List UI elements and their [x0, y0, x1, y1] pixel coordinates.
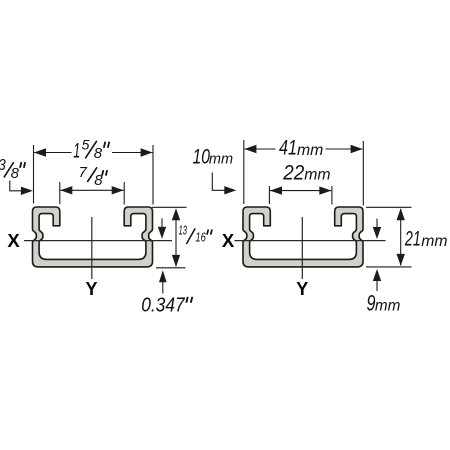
- svg-text:3: 3: [0, 157, 6, 174]
- dimension 1-5/8 inch: extension lines: [33, 145, 35, 204]
- svg-text:7: 7: [79, 164, 88, 181]
- dimension 10mm: text: [193, 146, 234, 169]
- dimension 9mm: up arrow to bottom line: [376, 281, 378, 291]
- dimension 13/16 inch: double arrow: [175, 209, 177, 267]
- svg-text:1: 1: [73, 140, 80, 163]
- dimension 13/16 inch: extension lines: [152, 206, 187, 208]
- svg-text:8: 8: [11, 165, 20, 182]
- Y axis centerline (right): [301, 217, 303, 279]
- svg-text:mm: mm: [304, 166, 330, 183]
- dimension 7/8 inch: text: [79, 164, 108, 189]
- svg-text:mm: mm: [421, 233, 447, 250]
- svg-text:10: 10: [193, 146, 211, 169]
- svg-text:41: 41: [279, 137, 297, 160]
- dimension 41mm: dim lines and arrows: [244, 148, 275, 150]
- svg-text:0.347: 0.347: [141, 293, 186, 316]
- dimension 3/8 inch: text: [0, 157, 25, 182]
- dimension 22mm: dim line and arrows: [270, 190, 331, 192]
- svg-text:22: 22: [282, 161, 304, 184]
- svg-text:16: 16: [195, 230, 206, 244]
- svg-text:mm: mm: [209, 152, 233, 168]
- svg-text:Y: Y: [296, 279, 308, 299]
- svg-text:21: 21: [404, 228, 421, 251]
- svg-text:mm: mm: [297, 142, 323, 159]
- svg-text:8: 8: [94, 145, 103, 162]
- dimension 7/8 inch: dim line and arrows: [60, 189, 123, 191]
- dimension 22mm: text: [282, 161, 330, 184]
- dimension 0.347 inch: up arrow to bottom line: [162, 282, 164, 294]
- dimension 41mm: text: [279, 137, 323, 160]
- dimension 10mm: leader with arrow: [212, 173, 226, 191]
- dimension 0.347 inch: down arrow to X axis: [161, 218, 163, 227]
- left strut channel cross-section (imperial): [33, 207, 153, 267]
- X axis line (right): [235, 240, 386, 242]
- Y axis centerline (left): [91, 217, 93, 279]
- dimension 3/8 inch: leader with arrow: [10, 181, 23, 191]
- dimension 13/16 inch: text: [179, 224, 213, 245]
- svg-text:5: 5: [82, 136, 90, 152]
- right strut channel cross-section (metric): [243, 207, 363, 267]
- svg-text:mm: mm: [375, 297, 401, 314]
- dimension 9mm: text: [367, 291, 401, 316]
- dimension 0.347 inch: text: [141, 293, 192, 316]
- dimension 9mm: down arrow to X axis: [376, 219, 378, 227]
- X axis line (left): [24, 240, 172, 242]
- dimension 7/8 inch: extension lines: [59, 182, 61, 204]
- svg-text:X: X: [7, 230, 20, 251]
- dimension 21mm: text: [404, 228, 447, 251]
- svg-text:13: 13: [179, 224, 188, 238]
- dimension 21mm: double arrow: [400, 209, 402, 266]
- dimension 22mm: extension lines: [268, 186, 270, 204]
- dimension 1-5/8 inch: text: [73, 136, 109, 162]
- svg-text:Y: Y: [86, 279, 98, 299]
- dimension 41mm: extension lines: [243, 140, 245, 204]
- dimension 1-5/8 inch: dim lines and arrows: [34, 152, 72, 154]
- svg-text:X: X: [222, 230, 235, 251]
- dimension 21mm: extension lines: [366, 206, 412, 208]
